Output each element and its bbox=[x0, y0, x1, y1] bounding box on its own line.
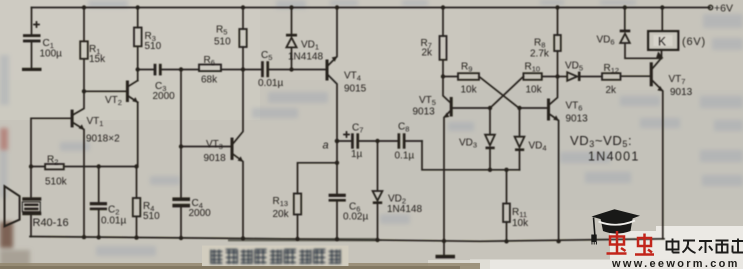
resistor R8 bbox=[554, 8, 561, 77]
svg-text:0.01µ: 0.01µ bbox=[258, 78, 283, 89]
node dot R5 top rail bbox=[241, 5, 245, 9]
wire node a down branch bbox=[336, 141, 338, 163]
wire VT1 base to left column bbox=[31, 118, 71, 166]
svg-text:9015: 9015 bbox=[344, 84, 367, 95]
svg-text:2000: 2000 bbox=[153, 91, 176, 102]
diode VD5 bbox=[558, 72, 603, 81]
ground bar of C1 bbox=[22, 68, 42, 71]
node dot VT3 base bbox=[179, 144, 183, 148]
svg-text:510k: 510k bbox=[45, 177, 68, 188]
resistor R5 bbox=[239, 8, 246, 70]
node dot R4 ground bbox=[134, 235, 138, 239]
node dot R1/VT1 collector/VT2 base bbox=[82, 89, 86, 93]
diode VD4 bbox=[515, 108, 525, 170]
wire VT2 emitter down to R4 node bbox=[137, 102, 139, 166]
node dot VT3 emitter ground bbox=[241, 236, 245, 240]
node dot C7/C8/VD2 bbox=[375, 139, 379, 143]
diode VD6 bbox=[620, 8, 661, 59]
node dot R13/C6 branch bbox=[335, 161, 339, 165]
node dot relay top rail bbox=[660, 5, 664, 9]
node dot R2 left / speaker bbox=[29, 164, 33, 168]
wire VT3 base branch down bbox=[180, 70, 182, 198]
transistor VT2 bbox=[126, 81, 138, 103]
svg-text:1N4001: 1N4001 bbox=[588, 150, 640, 164]
node dot R4/VT2 emitter bbox=[134, 164, 138, 168]
node dot VD2 ground bbox=[375, 238, 379, 242]
svg-text:9018×2: 9018×2 bbox=[86, 134, 120, 145]
logo graduation cap bbox=[591, 209, 640, 244]
resistor R7 bbox=[440, 8, 447, 77]
node dot VD3 bottom bbox=[488, 168, 492, 172]
node dot R11 tap bbox=[504, 168, 508, 172]
svg-text:68k: 68k bbox=[201, 75, 218, 86]
svg-text:0.01µ: 0.01µ bbox=[101, 216, 126, 227]
capacitor C6 bbox=[329, 163, 346, 239]
logo text site name bbox=[667, 239, 743, 254]
svg-text:a: a bbox=[323, 140, 329, 152]
resistor R11 bbox=[503, 170, 510, 242]
capacitor C3 bbox=[138, 64, 181, 76]
svg-text:9013: 9013 bbox=[413, 107, 436, 118]
wire +6V top supply rail bbox=[32, 7, 711, 9]
svg-text:9013: 9013 bbox=[566, 114, 589, 125]
node dot R3/C3/VT2 collector bbox=[136, 67, 140, 71]
ground symbol bbox=[436, 241, 456, 258]
node dot VT5 base / VD3 bbox=[488, 106, 492, 110]
svg-text:+6V: +6V bbox=[714, 3, 733, 15]
node dot R8 top rail bbox=[555, 5, 559, 9]
wire C5 to VT4 base bbox=[292, 69, 326, 71]
node dot C2 ground bbox=[97, 235, 101, 239]
svg-text:2k: 2k bbox=[422, 48, 434, 59]
transistor VT7 bbox=[650, 59, 663, 239]
node dot VT6 base / VD4 bbox=[517, 106, 521, 110]
resistor R1 bbox=[80, 8, 88, 92]
capacitor C7 bbox=[337, 132, 378, 149]
transistor VT5 bbox=[443, 77, 490, 242]
node dot VT6 collector / R8 / R10 / VD5 bbox=[555, 74, 559, 78]
node dot R7 top rail bbox=[441, 5, 445, 9]
node dot VT4 emitter top rail bbox=[335, 5, 339, 9]
svg-text:10k: 10k bbox=[526, 85, 543, 96]
svg-text:510: 510 bbox=[145, 41, 162, 52]
capacitor C4 bbox=[172, 197, 190, 238]
wire bottom ground rail bbox=[30, 237, 664, 242]
resistor R3 bbox=[134, 8, 142, 81]
node dot VD1 to VT4 base wire bbox=[289, 67, 293, 71]
diode VD2 bbox=[373, 141, 383, 240]
svg-text:9013: 9013 bbox=[670, 87, 693, 98]
svg-text:1N4148: 1N4148 bbox=[387, 204, 422, 215]
svg-text:1N4148: 1N4148 bbox=[288, 52, 323, 63]
resistor R2 bbox=[31, 164, 137, 169]
transducer B R40-16 bbox=[5, 186, 42, 226]
transistor VT1 bbox=[71, 91, 85, 236]
node dot VT5 emitter ground bbox=[442, 239, 446, 243]
svg-text:(6V): (6V) bbox=[682, 36, 706, 48]
node a junction dot bbox=[335, 139, 340, 144]
logo text chongchong bbox=[607, 231, 655, 255]
node dot C6 ground bbox=[335, 237, 339, 241]
wire speaker bottom lead bbox=[30, 215, 32, 236]
caption band bbox=[202, 246, 349, 267]
resistor R6 bbox=[181, 65, 243, 72]
resistor R13 bbox=[294, 163, 337, 239]
node dot C4 ground bbox=[179, 236, 183, 240]
svg-text:15k: 15k bbox=[89, 54, 106, 65]
svg-text:10k: 10k bbox=[512, 218, 529, 229]
resistor R4 bbox=[133, 167, 141, 238]
node dot VD6 top rail bbox=[623, 5, 627, 9]
node dot VT5 collector / R9 bbox=[441, 74, 445, 78]
node dot R1 top rail bbox=[82, 5, 86, 9]
svg-text:510: 510 bbox=[214, 37, 231, 48]
relay K bbox=[648, 8, 678, 59]
terminal +6V bbox=[708, 5, 712, 9]
wire R1 node to VT2 base bbox=[84, 90, 126, 92]
svg-text:0.1µ: 0.1µ bbox=[395, 151, 415, 162]
node dot C2 tap bbox=[97, 164, 101, 168]
svg-text:1µ: 1µ bbox=[351, 149, 363, 160]
svg-text:2k: 2k bbox=[606, 85, 618, 96]
resistor R12 bbox=[602, 73, 650, 80]
node dot VT1 emitter ground bbox=[82, 235, 86, 239]
node dot VD1 top rail bbox=[289, 5, 293, 9]
transistor VT4 bbox=[326, 8, 338, 142]
node dot R13 ground bbox=[295, 237, 299, 241]
diode VD3 bbox=[485, 108, 495, 170]
node dot R3 top rail bbox=[136, 5, 140, 9]
svg-text:100µ: 100µ bbox=[40, 49, 63, 60]
resistor R9 bbox=[443, 73, 479, 80]
wire VT3 base lead bbox=[181, 146, 231, 148]
svg-text:2000: 2000 bbox=[189, 208, 212, 219]
svg-text:9018: 9018 bbox=[204, 153, 227, 164]
svg-text:0.02µ: 0.02µ bbox=[343, 212, 368, 223]
wire C8 to diode clamp line bbox=[422, 141, 520, 170]
svg-text:510: 510 bbox=[143, 211, 160, 222]
node dot R11 ground bbox=[504, 239, 508, 243]
svg-text:K: K bbox=[658, 35, 666, 49]
svg-text:20k: 20k bbox=[273, 209, 290, 220]
transistor VT3 bbox=[231, 70, 244, 239]
svg-text:www.eeworm.com: www.eeworm.com bbox=[611, 258, 740, 269]
caption text 双稳态超声波接收器 bbox=[211, 250, 340, 265]
capacitor C1 bbox=[23, 8, 41, 69]
node dot C3/R6/VT3 base branch bbox=[179, 67, 183, 71]
svg-text:10k: 10k bbox=[461, 85, 478, 96]
node dot R5/C5/VT3 collector bbox=[241, 67, 245, 71]
wire speaker top lead bbox=[30, 167, 32, 198]
svg-text:2.7k: 2.7k bbox=[530, 49, 550, 60]
node dot VT6 emitter ground bbox=[556, 239, 560, 243]
capacitor C5 bbox=[243, 61, 292, 77]
wire R10 to VT5 base diagonal bbox=[490, 77, 523, 109]
diode VD1 bbox=[286, 8, 297, 70]
capacitor C8 bbox=[378, 133, 423, 148]
capacitor C2 bbox=[90, 167, 107, 238]
resistor R10 bbox=[523, 73, 557, 80]
wire R9 to VT6 base diagonal bbox=[479, 77, 519, 109]
transistor VT6 bbox=[520, 77, 559, 242]
svg-text:R40-16: R40-16 bbox=[33, 217, 69, 229]
